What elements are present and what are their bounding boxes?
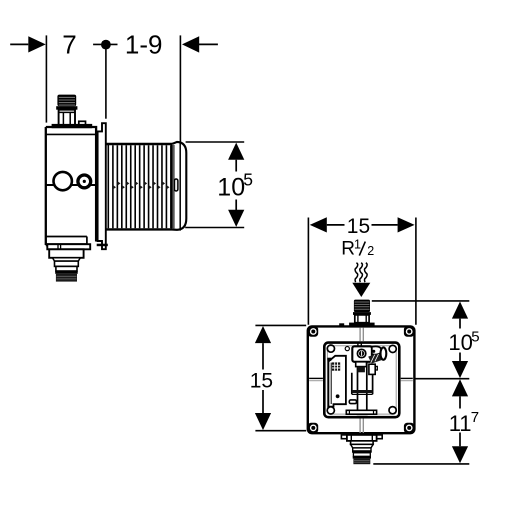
arrow left-pointing (dim 1-9 right) [182, 36, 199, 52]
box half seam right [401, 377, 413, 379]
extension tick left at body edge [45, 35, 47, 122]
svg-text:1: 1 [354, 238, 361, 252]
panel clip dark [327, 358, 331, 361]
sleeve smooth section lines [171, 145, 173, 228]
dim line segments 10^5 [235, 160, 237, 210]
svg-text:7: 7 [471, 409, 479, 426]
hatched wedge [368, 353, 381, 364]
pipe stub above housing [358, 342, 361, 346]
body lid dark band [52, 124, 93, 128]
valve housing [352, 346, 372, 362]
svg-text:5: 5 [243, 170, 253, 190]
inlet connector hex band [56, 106, 77, 110]
valve body outline [46, 127, 96, 245]
dimension stub through dot [93, 43, 117, 45]
small tab left on box top [339, 323, 344, 325]
frame ring TL [327, 345, 334, 352]
corner screw BL [308, 423, 318, 433]
arrow up (11^7) [452, 379, 468, 396]
big sight circle [54, 172, 72, 190]
arrow up 10^5 [228, 143, 244, 160]
dim segments 11^7 [459, 396, 461, 446]
neck inner lines [59, 112, 75, 125]
dimension 15 top: extension lines [308, 218, 416, 325]
valve pipe column [358, 363, 367, 414]
left small tab [349, 400, 356, 404]
small sight circle [78, 175, 91, 188]
dim line segments 15 [327, 224, 398, 226]
bellows left edge [107, 145, 109, 228]
left service panel [328, 356, 346, 407]
dimension line 7 / 1-9 (top left) [10, 43, 28, 45]
svg-text:11: 11 [449, 411, 472, 436]
arrow up (15 left) [255, 326, 271, 343]
panel inner edge line [330, 363, 332, 404]
body lower seam [46, 237, 87, 244]
flange bottom foot [97, 244, 108, 247]
frame ring BL [327, 407, 334, 414]
arrow down 10^5 [228, 210, 244, 227]
svg-text:1-9: 1-9 [125, 30, 163, 60]
bellows corrugation lines [113, 145, 171, 228]
arrow up (10^5 right) [452, 302, 468, 319]
small circle center dot [83, 180, 86, 183]
arrow down (11^7) [452, 446, 468, 463]
body bottom dark band [46, 243, 87, 246]
outlet connector stack (left figure bottom) [47, 244, 90, 249]
corner screw TL [308, 326, 318, 336]
svg-text:15: 15 [250, 369, 273, 392]
dark cartridge [357, 367, 365, 373]
thread shading lines [59, 97, 75, 105]
svg-text:15: 15 [347, 215, 370, 238]
body lid seam line [46, 133, 96, 135]
panel dot [336, 394, 340, 398]
flange bar on pipe [352, 390, 373, 393]
concealed box outline [308, 326, 415, 433]
sleeve slot [174, 179, 178, 191]
dimension 10^5 extension top (left figure) [186, 141, 245, 143]
inner frame [324, 343, 399, 418]
bottom U bracket [346, 410, 376, 414]
bellows bottom edge [106, 228, 181, 230]
valve center dot [359, 351, 364, 356]
supply pipe above frame [360, 328, 363, 341]
bellows fold chevrons [113, 181, 174, 189]
nipple base plate [349, 323, 375, 327]
right crescent ring [381, 347, 387, 359]
outlet plate [347, 435, 377, 441]
dot extension line [105, 49, 107, 119]
inlet connector threaded cap (left figure) [57, 95, 76, 107]
valve ring [357, 349, 365, 357]
outer tube [352, 373, 373, 395]
outlet block [351, 441, 374, 445]
reference dot [101, 40, 111, 50]
svg-text:10: 10 [217, 173, 245, 201]
extension tick right at sleeve end [179, 35, 181, 142]
outlet fitting below box: side tabs [341, 435, 347, 439]
small bump fitting right of neck [79, 121, 86, 126]
body mid line [46, 184, 97, 186]
valve right lobe [372, 346, 382, 354]
arrow right-pointing (15) [398, 217, 415, 232]
dim line segments 15 left [262, 343, 264, 413]
arrow down (15 left) [255, 413, 271, 430]
bracket below valve [356, 362, 367, 367]
arrow left-pointing (15) [310, 217, 327, 232]
box half seam left [309, 377, 323, 379]
cap inner line [179, 143, 181, 229]
dim segments 10^5 right [459, 319, 461, 361]
lobe pivot dot [372, 350, 375, 353]
supply pipe below frame [360, 419, 363, 434]
corner screw TR [404, 326, 414, 336]
dimension tail right [199, 43, 218, 45]
mounting flange plate [98, 123, 106, 249]
frame ring TR [389, 345, 396, 352]
inner frame offset line [327, 346, 396, 414]
svg-text:7: 7 [62, 30, 76, 60]
arrow down (10^5 right) [452, 361, 468, 378]
flow arrow down [352, 283, 370, 297]
nipple neck [355, 315, 369, 323]
supply nipple threads [354, 300, 370, 313]
nipple band [353, 312, 371, 315]
protection sleeve bellows top edge [106, 143, 181, 145]
arrow right-pointing (dim 7 left) [28, 36, 45, 52]
svg-text:R: R [341, 239, 355, 260]
piston right [369, 364, 375, 374]
frame ring BR [389, 407, 396, 414]
inlet connector neck [59, 110, 75, 126]
sleeve end cap [172, 142, 186, 230]
small screw top middle [345, 347, 349, 351]
dimension 15 left: extension lines [255, 324, 306, 326]
svg-text:5: 5 [471, 328, 479, 345]
svg-text:2: 2 [367, 244, 374, 258]
corner screw BR [404, 423, 414, 433]
panel grid block [332, 362, 340, 370]
dimension 10^5 extension bottom [185, 227, 244, 229]
dimension 10^5 right: extension lines [372, 300, 470, 302]
water supply squiggle [355, 263, 367, 282]
svg-text:10: 10 [448, 330, 472, 355]
